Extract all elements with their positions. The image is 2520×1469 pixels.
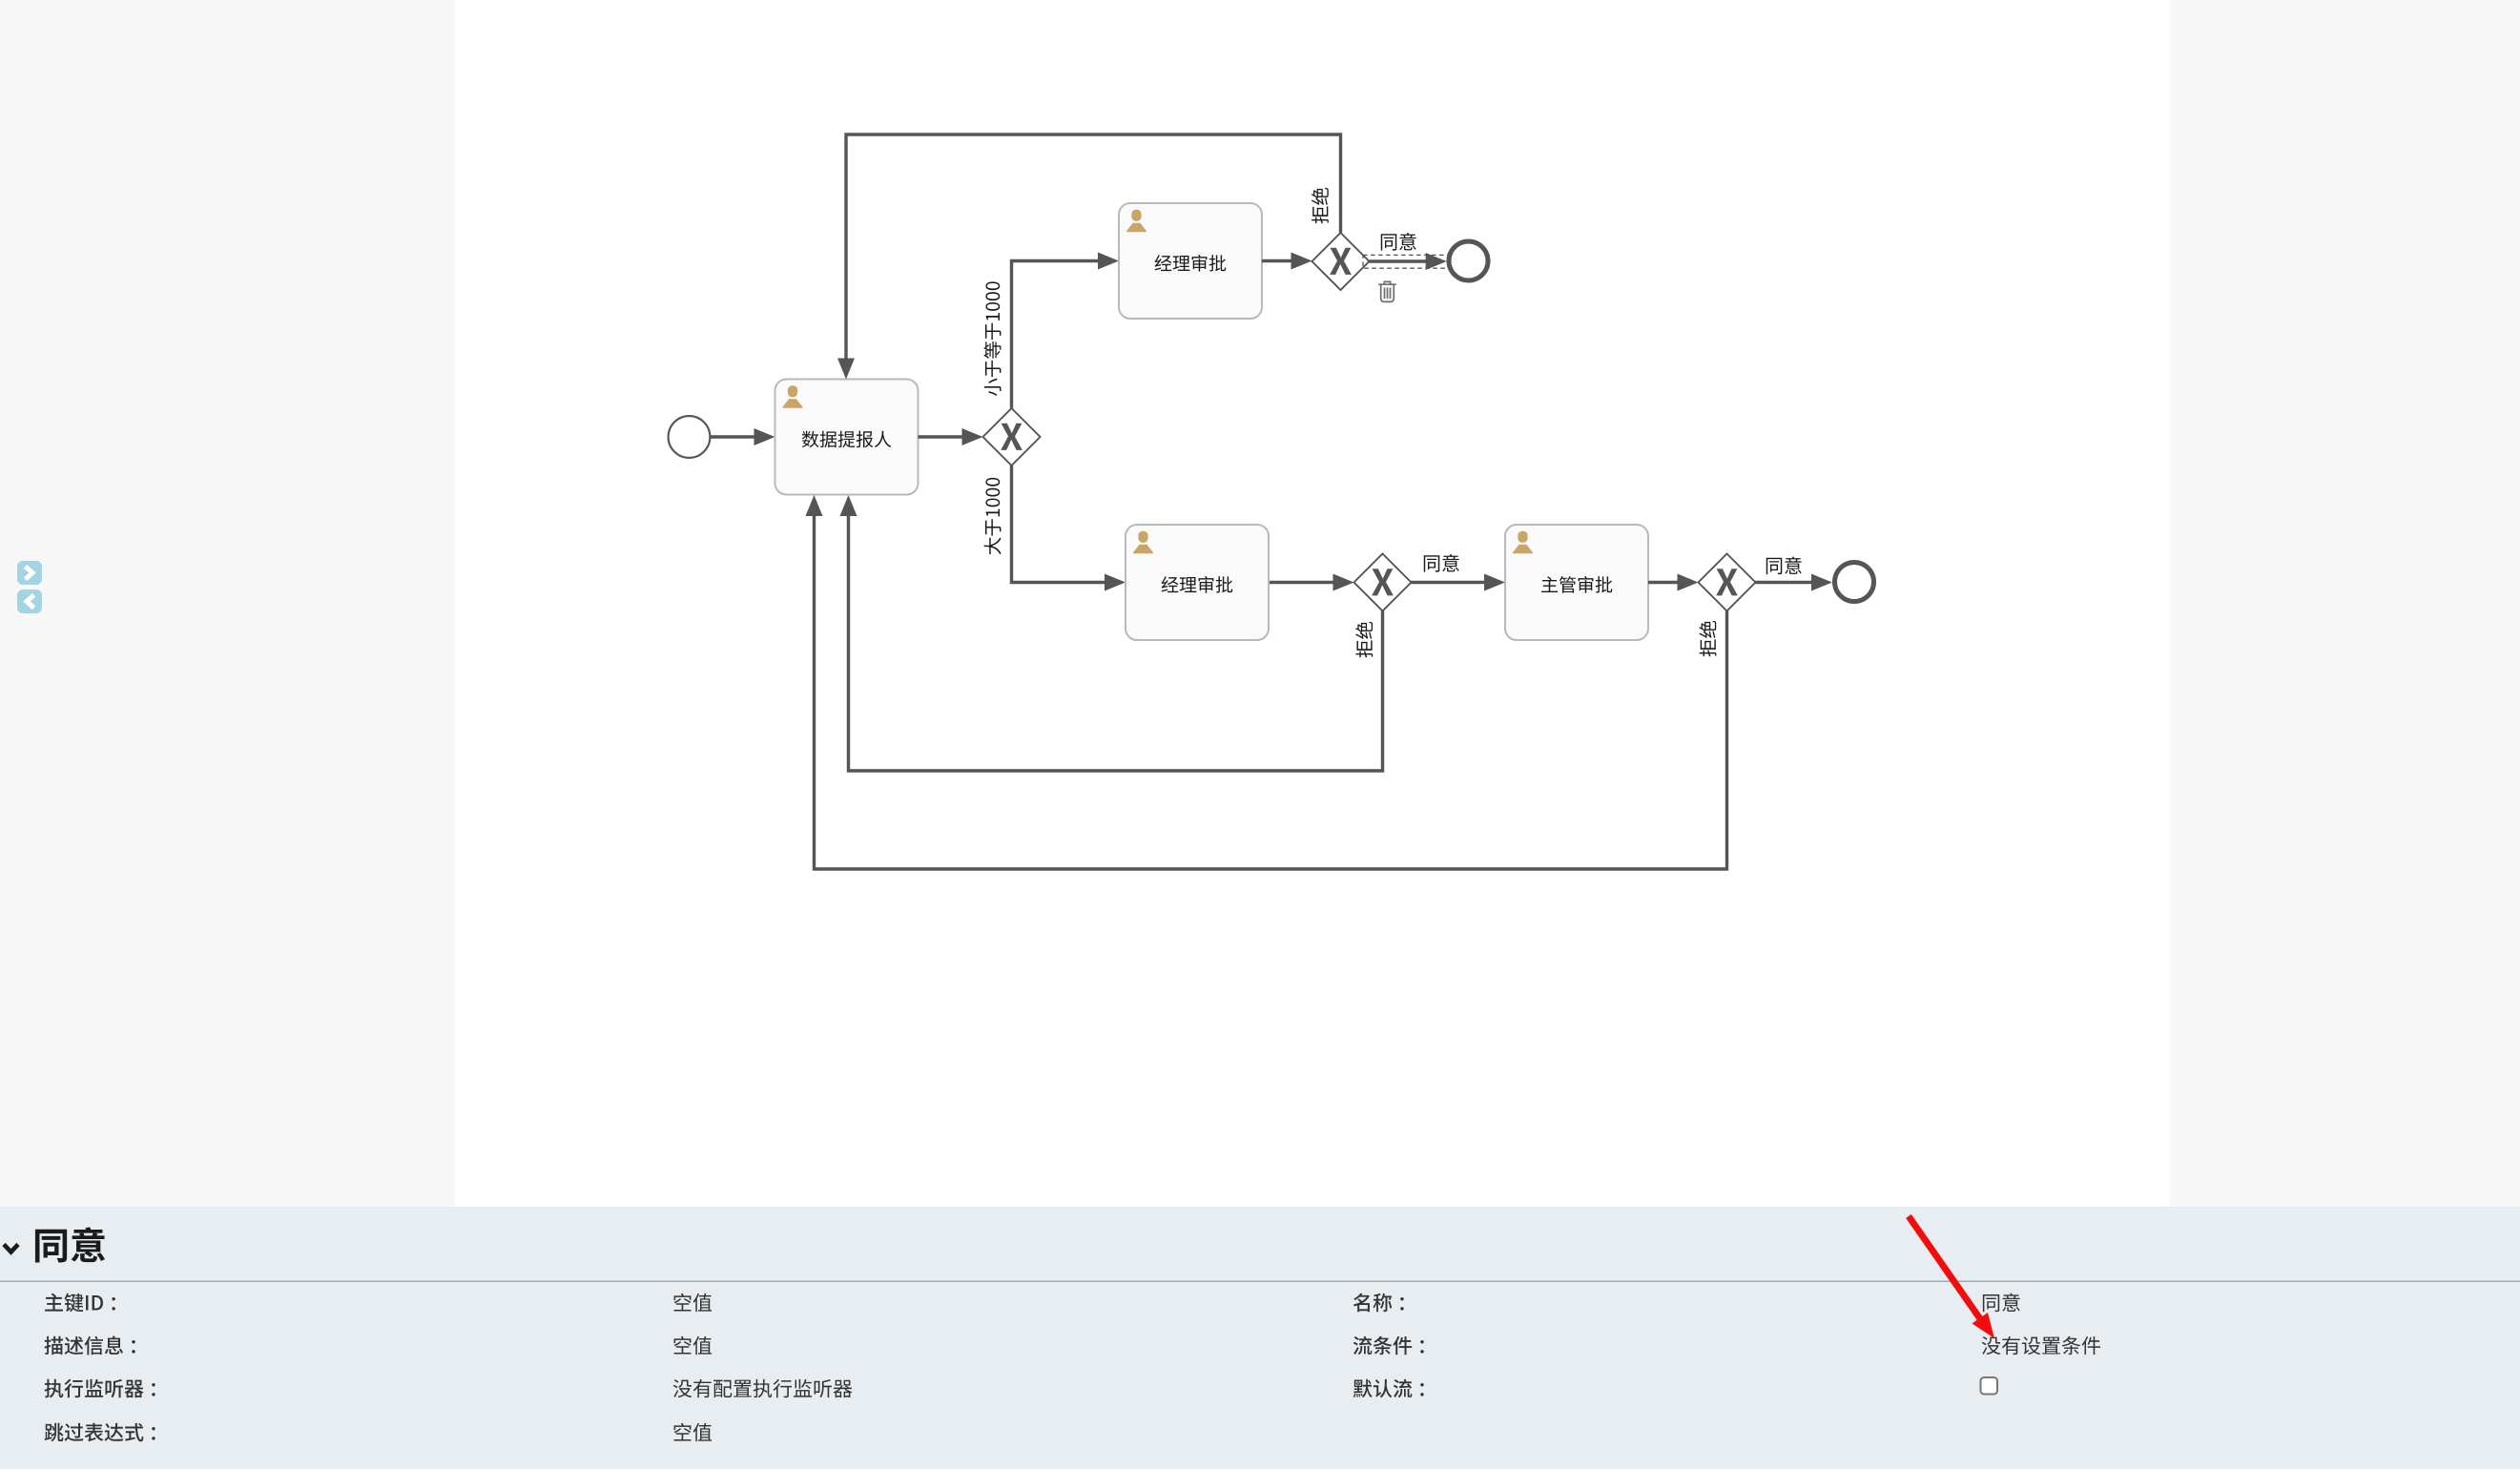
start event [669, 416, 711, 458]
value 空值 row1 [674, 1293, 713, 1312]
flow 数据提报人 to gateway 1 [919, 428, 983, 445]
label 跳过表达式 [45, 1423, 155, 1442]
panel header 同意 [35, 1227, 105, 1262]
end event 2 [1835, 563, 1874, 602]
flow 拒绝: gateway 3 back to 数据提报人 (inner loop) [840, 495, 1383, 771]
value 空值 row2 [674, 1336, 713, 1355]
sidebar collapse button [17, 590, 42, 613]
red annotation arrow [1909, 1216, 1994, 1338]
label 主键ID [45, 1293, 115, 1313]
exclusive gateway 4 [1699, 554, 1756, 611]
user task 数据提报人 [775, 380, 919, 495]
flow 同意: gateway 4 to end event 2 [1756, 557, 1833, 591]
label 默认流 [1353, 1379, 1424, 1398]
flow 同意: gateway 3 to 主管审批 [1412, 554, 1506, 590]
header separator [0, 1281, 2520, 1282]
value 同意 [1983, 1293, 2020, 1313]
flow 经理审批(top) to gateway 2 [1262, 253, 1312, 270]
trash icon (delete selected flow) [1378, 281, 1396, 301]
properties panel background [0, 1207, 2520, 1469]
user task 经理审批 (bottom) [1126, 525, 1269, 640]
checkbox 默认流 [1981, 1377, 1998, 1395]
flow 大于1000: gateway 1 to 经理审批(bottom) [984, 466, 1126, 591]
flow 小于等于1000: gateway 1 to 经理审批(top) [984, 253, 1119, 409]
properties panel [0, 1207, 2520, 1469]
flow start to 数据提报人 [711, 428, 775, 445]
exclusive gateway 2 [1312, 233, 1370, 290]
value 空值 row4 [674, 1423, 713, 1441]
label 执行监听器 [45, 1379, 155, 1398]
label 名称 [1353, 1293, 1404, 1313]
flow 拒绝: gateway 4 back to 数据提报人 (outer loop) [806, 495, 1727, 869]
value 没有设置条件 [1982, 1336, 2100, 1355]
value 没有配置执行监听器 [673, 1379, 853, 1397]
exclusive gateway 3 [1354, 554, 1412, 611]
right panel sidebar [2170, 0, 2520, 1207]
flow 主管审批 to gateway 4 [1648, 574, 1699, 591]
label 描述信息 [45, 1336, 135, 1355]
flow 经理审批(bottom) to gateway 3 [1269, 574, 1354, 591]
flow 同意: gateway 2 to end event 1 (selected) [1363, 233, 1451, 270]
sidebar expand button [17, 561, 42, 585]
exclusive gateway 1 [983, 408, 1041, 466]
label 流条件 [1353, 1336, 1424, 1355]
flow 拒绝: gateway 2 back to 数据提报人 (top loop) [837, 134, 1341, 380]
left toolbox sidebar [0, 0, 455, 1207]
end event 1 [1449, 241, 1488, 280]
collapse chevron [4, 1245, 18, 1252]
user task 主管审批 [1505, 525, 1648, 640]
user task 经理审批 (top) [1119, 203, 1262, 319]
